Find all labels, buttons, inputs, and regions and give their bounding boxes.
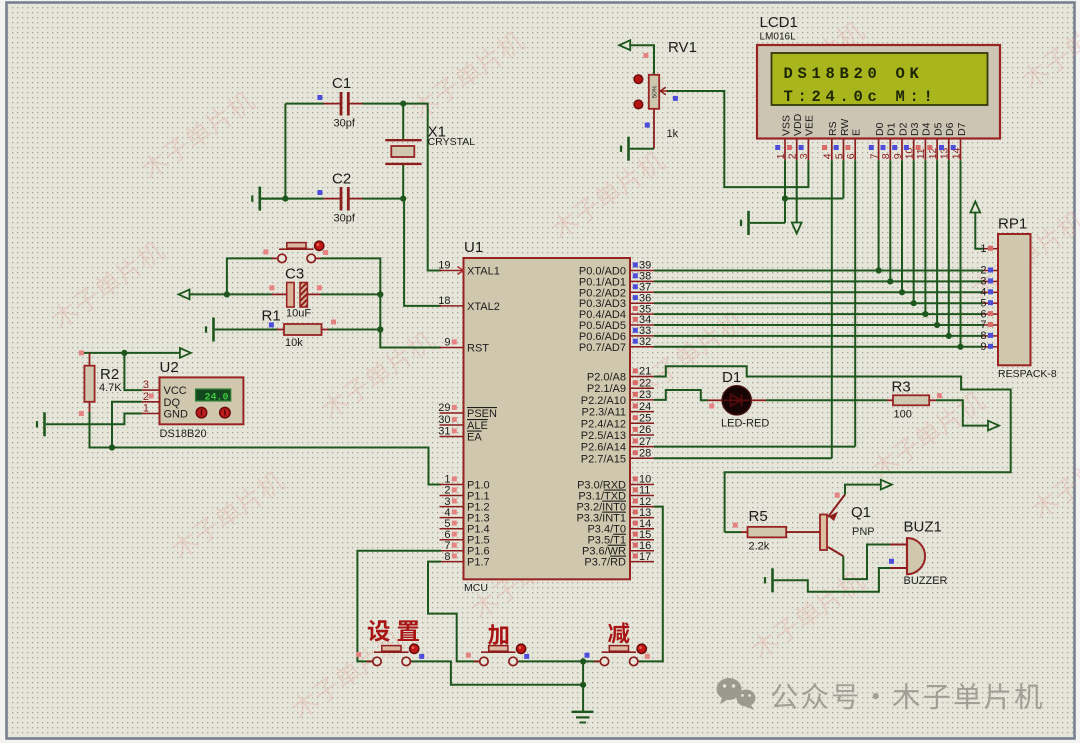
svg-text:ALE: ALE <box>467 420 488 432</box>
svg-text:U2: U2 <box>160 359 179 376</box>
wire DQ bus to P1.0 <box>90 412 442 485</box>
wire C1 right segment to XTAL1 <box>363 104 442 271</box>
svg-text:4.7K: 4.7K <box>99 382 122 394</box>
svg-text:GND: GND <box>164 409 189 421</box>
wire C1 left segment <box>285 103 323 105</box>
svg-text:C3: C3 <box>285 266 304 283</box>
svg-text:2: 2 <box>787 153 799 159</box>
junctions D0-D7 on P0 bus <box>876 267 964 350</box>
svg-text:30pf: 30pf <box>334 213 356 225</box>
wire P2.2 net to D1 <box>654 390 708 400</box>
terminal arrow left at RV1 top <box>619 40 630 50</box>
svg-text:P1.7: P1.7 <box>467 557 490 569</box>
svg-text:LCD1: LCD1 <box>760 14 798 31</box>
svg-text:26: 26 <box>639 424 651 436</box>
svg-text:7: 7 <box>868 153 880 159</box>
svg-text:VSS: VSS <box>780 115 792 136</box>
svg-text:27: 27 <box>639 436 651 448</box>
resistor R5 <box>725 527 787 538</box>
svg-text:XTAL2: XTAL2 <box>467 301 500 313</box>
svg-text:D4: D4 <box>921 122 933 136</box>
svg-text:5: 5 <box>833 153 845 159</box>
svg-text:DS18B20 OK: DS18B20 OK <box>784 65 924 83</box>
svg-text:17: 17 <box>639 551 651 563</box>
BUZ1 blue pin square <box>889 559 894 564</box>
wire VCC bus with terminal arrow <box>81 352 180 354</box>
terminal arrow right (RST net) <box>180 348 191 358</box>
junction C3 right <box>377 291 383 297</box>
svg-text:P3.7/RD: P3.7/RD <box>584 557 626 569</box>
svg-text:PNP: PNP <box>852 526 875 538</box>
wire bus vertical to ground <box>582 661 584 711</box>
wire LCD VSS net (to RW and ground) <box>750 160 843 223</box>
wire Q1 emitter to terminal arrow <box>845 485 881 495</box>
LCD pins group (stubs, names, numbers, squares) <box>775 113 968 160</box>
buzzer BUZ1 <box>890 538 925 574</box>
MCU U1 body <box>464 258 631 579</box>
svg-text:23: 23 <box>639 389 651 401</box>
svg-text:24.0: 24.0 <box>204 392 228 403</box>
RV1 top pin square <box>643 53 648 58</box>
svg-text:3: 3 <box>143 379 149 391</box>
wechat watermark icon and text <box>717 678 1042 710</box>
junction LCD VSS <box>782 195 788 201</box>
svg-text:BUZZER: BUZZER <box>904 575 948 587</box>
wire Q1 collector to BUZ1 top <box>843 545 890 580</box>
terminal arrow right at R3 net <box>988 421 999 431</box>
junction C3 left <box>224 291 230 297</box>
wire LCD VDD with power-down arrow <box>796 160 798 223</box>
junction X1 top <box>400 101 406 107</box>
svg-text:XTAL1: XTAL1 <box>467 266 500 278</box>
svg-text:P2.0/A8: P2.0/A8 <box>587 372 626 384</box>
svg-text:C2: C2 <box>332 171 351 188</box>
MINUS label 减 <box>608 622 630 643</box>
svg-text:1: 1 <box>775 153 787 159</box>
terminal arrow left of C3 <box>179 290 190 300</box>
SET button squares <box>356 652 361 657</box>
capacitor C2 <box>324 187 363 211</box>
svg-text:18: 18 <box>438 295 450 307</box>
svg-text:R1: R1 <box>262 308 281 325</box>
svg-text:T:24.0c M:!: T:24.0c M:! <box>784 88 938 106</box>
U1 left pins group <box>438 260 500 569</box>
wire C3 right green <box>321 293 381 295</box>
ground at Q1 <box>765 568 773 592</box>
svg-text:RP1: RP1 <box>998 216 1027 233</box>
junction X1 bottom <box>400 196 406 202</box>
C2 blue pin square <box>317 190 322 195</box>
junction R1 right <box>377 326 383 332</box>
U1 right pins group <box>576 260 654 569</box>
svg-text:RST: RST <box>467 343 489 355</box>
junction bottom bus lower <box>580 682 586 688</box>
RV1 bottom blue square <box>645 123 650 128</box>
wire LCD RS vertical to P2.7 <box>831 160 833 458</box>
RV1 wiper blue square <box>673 96 678 101</box>
svg-text:CRYSTAL: CRYSTAL <box>428 136 476 148</box>
svg-text:D0: D0 <box>874 122 886 136</box>
svg-text:6: 6 <box>845 153 857 159</box>
svg-text:C1: C1 <box>332 75 351 92</box>
push button SET (设置) <box>367 644 419 665</box>
ground at U2 <box>37 412 45 436</box>
wire LCD E vertical to P2.6 <box>854 160 856 446</box>
PLUS label 加 <box>488 624 508 645</box>
svg-text:D3: D3 <box>909 122 921 136</box>
crystal X1 <box>385 104 421 199</box>
U1 XTAL1 clock chevron <box>458 267 464 275</box>
svg-text:29: 29 <box>438 402 450 414</box>
wire C2 right segment <box>363 198 404 200</box>
D1 red pin square <box>709 404 714 409</box>
svg-text:8: 8 <box>444 551 450 563</box>
junction VCC bus / U2 VCC <box>121 350 127 356</box>
junction C2-left <box>282 196 288 202</box>
capacitor C1 <box>324 92 363 116</box>
SET label 设置 <box>368 620 390 642</box>
wire reset button left vertical <box>227 258 273 294</box>
wire set button right to ground bus <box>412 661 583 684</box>
svg-text:30pf: 30pf <box>334 118 356 130</box>
R1 red pin square <box>331 320 336 325</box>
svg-text:25: 25 <box>639 413 651 425</box>
junction bottom bus upper <box>580 658 586 664</box>
svg-text:Q1: Q1 <box>851 504 871 521</box>
svg-text:BUZ1: BUZ1 <box>904 519 942 536</box>
svg-text:8: 8 <box>880 153 892 159</box>
svg-text:10uF: 10uF <box>286 308 311 320</box>
svg-text:24: 24 <box>639 401 651 413</box>
wire minus button right to P3.2 <box>639 507 663 662</box>
svg-text:VEE: VEE <box>804 115 816 136</box>
svg-text:LED-RED: LED-RED <box>721 418 769 430</box>
push button MINUS (减) <box>594 644 646 665</box>
svg-text:32: 32 <box>639 336 651 348</box>
RP1 pins group <box>980 243 998 353</box>
svg-text:D2: D2 <box>897 122 909 136</box>
C1 blue pin square <box>317 95 322 100</box>
svg-text:P2.6/A14: P2.6/A14 <box>581 442 626 454</box>
wire P1.6 to set button <box>357 551 441 662</box>
wire LCD VEE from RV1 wiper <box>667 91 809 187</box>
svg-text:EA: EA <box>467 432 482 444</box>
svg-text:1: 1 <box>143 403 149 415</box>
svg-text:2: 2 <box>143 391 149 403</box>
potentiometer RV1 <box>634 75 668 149</box>
svg-text:2.2k: 2.2k <box>749 541 770 553</box>
resistor R1 <box>277 324 329 335</box>
svg-text:P2.2/A10: P2.2/A10 <box>581 395 626 407</box>
wire R3 to terminal arrow <box>936 400 988 425</box>
svg-text:D5: D5 <box>932 122 944 136</box>
wire plus button right to minus button left <box>519 660 599 662</box>
svg-text:R2: R2 <box>100 366 119 383</box>
svg-text:U1: U1 <box>464 239 483 256</box>
wire R1 right green <box>329 329 381 331</box>
R2 bottom pin square <box>79 411 84 416</box>
svg-text:4: 4 <box>822 153 834 159</box>
wire P2.6 stub to E column <box>654 446 855 448</box>
svg-text:50%: 50% <box>652 85 659 98</box>
R3 red pin square <box>937 393 942 398</box>
wire ground to BUZ1 bottom <box>774 568 890 592</box>
wires LCD D0-D7 drops <box>879 160 961 347</box>
svg-text:P2.5/A13: P2.5/A13 <box>581 430 626 442</box>
wire left vertical C1-C2 <box>284 104 286 199</box>
junction DQ bus <box>109 444 115 450</box>
svg-text:VCC: VCC <box>164 385 187 397</box>
wire P2.7 stub to RS column <box>654 457 832 459</box>
capacitor C3 (10uF electrolytic) <box>272 283 321 308</box>
ground at RV1 <box>621 137 654 161</box>
svg-text:10k: 10k <box>285 337 303 349</box>
svg-text:RW: RW <box>839 119 851 136</box>
svg-text:9: 9 <box>892 153 904 159</box>
ground at buttons (down type) <box>572 712 594 723</box>
svg-text:PSEN: PSEN <box>467 408 497 420</box>
svg-text:LM016L: LM016L <box>760 32 797 43</box>
R5 red pin square <box>733 523 738 528</box>
resistor R3 <box>887 395 936 405</box>
svg-text:R5: R5 <box>749 508 768 525</box>
push button PLUS (加) <box>474 644 526 665</box>
Q1 emitter red square <box>835 493 840 498</box>
svg-text:P2.1/A9: P2.1/A9 <box>587 383 626 395</box>
svg-text:P2.4/A12: P2.4/A12 <box>581 418 626 430</box>
power arrow up at RP1 <box>970 202 980 213</box>
wire arrow to C3 <box>189 293 227 295</box>
R1 blue pin square <box>269 322 274 327</box>
reset push button <box>272 241 324 262</box>
svg-text:3: 3 <box>798 153 810 159</box>
svg-text:RS: RS <box>827 121 839 136</box>
svg-text:D7: D7 <box>956 122 968 136</box>
wire U2 DQ <box>112 402 142 448</box>
wire reset button right to RST vertical <box>321 258 441 347</box>
svg-text:19: 19 <box>438 260 450 272</box>
svg-text:D1: D1 <box>722 369 741 386</box>
LCD LCD1 body <box>757 45 1000 139</box>
ground at LCD <box>741 211 749 235</box>
ground at R1 <box>206 318 277 342</box>
resistor pack RP1 <box>998 234 1031 365</box>
LCD screen <box>772 53 988 105</box>
wire RV1 top <box>629 45 654 75</box>
wire RP1 pin1 to power arrow <box>975 212 983 249</box>
svg-text:MCU: MCU <box>464 582 488 594</box>
MINUS button squares <box>585 653 590 658</box>
svg-text:1k: 1k <box>667 128 679 140</box>
svg-text:22: 22 <box>639 377 651 389</box>
reset button pin squares <box>263 249 268 254</box>
svg-text:DQ: DQ <box>164 397 181 409</box>
wire U2 GND to ground <box>46 414 142 425</box>
wires P0.0-P0.7 to RP1 <box>654 271 983 347</box>
svg-text:21: 21 <box>639 366 651 378</box>
transistor Q1 (PNP) <box>786 495 845 557</box>
wire P1.7 to plus button <box>428 562 478 662</box>
svg-text:31: 31 <box>438 426 450 438</box>
svg-text:D1: D1 <box>886 122 898 136</box>
svg-text:R3: R3 <box>892 379 911 396</box>
svg-text:VDD: VDD <box>792 113 804 136</box>
wire C2 left segment <box>261 198 324 200</box>
power arrow down at VDD <box>792 223 802 234</box>
svg-text:P2.7/A15: P2.7/A15 <box>581 453 626 465</box>
svg-text:E: E <box>851 129 863 136</box>
svg-text:28: 28 <box>639 448 651 460</box>
wire C3 left green <box>227 293 272 295</box>
wire P2.0 net to R5 (long) <box>654 366 1011 532</box>
svg-text:RV1: RV1 <box>668 39 697 56</box>
sensor U2 DS18B20 <box>142 377 244 424</box>
R2 top pin square <box>79 350 84 355</box>
svg-text:DS18B20: DS18B20 <box>160 428 207 440</box>
svg-text:9: 9 <box>980 341 986 353</box>
svg-text:9: 9 <box>444 337 450 349</box>
svg-text:P2.3/A11: P2.3/A11 <box>582 407 626 419</box>
svg-text:RESPACK-8: RESPACK-8 <box>998 368 1057 380</box>
svg-text:P0.7/AD7: P0.7/AD7 <box>579 342 626 354</box>
wire U2 VCC <box>124 353 141 390</box>
C3 pin squares <box>269 285 274 290</box>
wire C2 to XTAL2 <box>403 199 441 306</box>
terminal arrow right at emitter net <box>881 480 892 490</box>
wire D1 to R3 <box>766 399 887 401</box>
resistor R2 (vertical) <box>84 353 94 412</box>
svg-text:D6: D6 <box>944 122 956 136</box>
PLUS button squares <box>466 653 471 658</box>
ground at C2 <box>252 187 285 211</box>
svg-text:30: 30 <box>438 414 450 426</box>
LED D1 <box>708 386 767 415</box>
U2 DQ pin square <box>149 394 154 399</box>
svg-text:100: 100 <box>894 409 912 421</box>
